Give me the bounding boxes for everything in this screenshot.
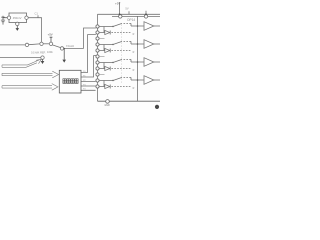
svg-text:100k: 100k bbox=[47, 50, 53, 54]
svg-text:R: R bbox=[133, 33, 135, 36]
svg-text:R: R bbox=[133, 69, 135, 72]
svg-text:OP14: OP14 bbox=[127, 18, 135, 22]
svg-text:R: R bbox=[133, 51, 135, 54]
svg-text:+5V: +5V bbox=[48, 32, 53, 36]
svg-text:450mV: 450mV bbox=[13, 16, 22, 20]
svg-text:GND: GND bbox=[105, 105, 110, 107]
svg-text:0.1%/K REF.: 0.1%/K REF. bbox=[31, 50, 46, 54]
svg-text:R: R bbox=[133, 87, 135, 90]
svg-text:+5V: +5V bbox=[115, 1, 120, 5]
svg-text:C1: C1 bbox=[35, 12, 39, 16]
svg-text:f≈1kHz: f≈1kHz bbox=[66, 44, 75, 48]
svg-text:5V: 5V bbox=[125, 6, 128, 10]
